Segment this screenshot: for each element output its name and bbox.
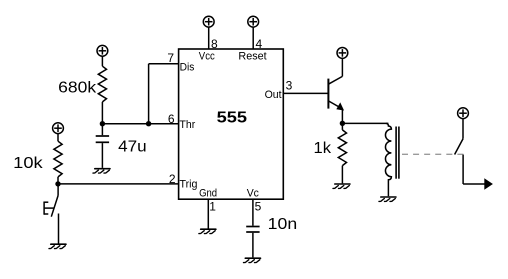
switch SW1 pushbutton bbox=[44, 184, 58, 244]
wire 680k bottom to node bbox=[101, 102, 103, 124]
svg-text:10n: 10n bbox=[268, 216, 298, 233]
svg-text:3: 3 bbox=[286, 79, 293, 93]
svg-text:Vcc: Vcc bbox=[199, 50, 215, 62]
power +V above pin 4 bbox=[248, 16, 259, 49]
svg-text:Dis: Dis bbox=[180, 62, 195, 74]
wire Thr node to pin 6 bbox=[102, 123, 178, 125]
relay core bars bbox=[396, 127, 399, 179]
transistor Q1 emitter arrow bbox=[337, 104, 343, 110]
power +V above resistor 680k bbox=[97, 45, 108, 66]
svg-text:47u: 47u bbox=[118, 138, 147, 155]
svg-text:680k: 680k bbox=[58, 80, 97, 97]
label 1k bbox=[314, 140, 333, 157]
node emitter/1k/relay junction bbox=[340, 121, 345, 126]
resistor 10k bbox=[54, 141, 62, 177]
pin 6 label Thr bbox=[180, 119, 196, 131]
pin 2 label Trig bbox=[180, 179, 198, 191]
svg-text:10k: 10k bbox=[13, 155, 44, 172]
svg-text:5: 5 bbox=[255, 199, 262, 213]
capacitor 47u bbox=[96, 124, 109, 168]
pin 3 number bbox=[286, 79, 293, 93]
ground below resistor 1k bbox=[333, 184, 350, 188]
svg-text:1: 1 bbox=[209, 199, 216, 213]
svg-text:555: 555 bbox=[217, 110, 248, 127]
pin 5 label Vc bbox=[247, 188, 260, 200]
power +V above transistor Q1 bbox=[337, 48, 348, 77]
svg-text:Thr: Thr bbox=[180, 119, 196, 131]
node 680k/47u junction bbox=[100, 121, 105, 126]
pin 2 number bbox=[169, 172, 176, 186]
label 47u bbox=[118, 138, 147, 155]
wire pin 3 Out to transistor base bbox=[283, 92, 328, 94]
ground below capacitor 47u bbox=[93, 169, 110, 173]
switch SW2 relay contact bbox=[455, 139, 485, 184]
wire node to pin 2 Trig bbox=[58, 183, 179, 185]
pin 7 number bbox=[167, 51, 174, 65]
capacitor 10n bbox=[246, 227, 259, 258]
svg-text:Vc: Vc bbox=[247, 188, 260, 200]
svg-text:Out: Out bbox=[265, 89, 282, 101]
pin 3 label Out bbox=[265, 89, 282, 101]
pin 4 number bbox=[256, 37, 263, 51]
IC U1 555 body bbox=[179, 49, 284, 199]
label 10n bbox=[268, 216, 298, 233]
IC 555 value label bbox=[217, 110, 248, 127]
power +V above pin 8 bbox=[203, 16, 214, 49]
ground below switch SW1 bbox=[49, 244, 66, 248]
wire emitter node to relay coil bbox=[342, 122, 388, 124]
svg-text:4: 4 bbox=[256, 37, 263, 51]
wire pin 5 to capacitor 10n bbox=[252, 199, 254, 226]
power +V above switch SW2 bbox=[458, 108, 469, 139]
label 10k bbox=[13, 155, 44, 172]
resistor 680k bbox=[98, 66, 106, 102]
node Dis branch junction bbox=[146, 121, 151, 126]
svg-text:7: 7 bbox=[167, 51, 174, 65]
svg-text:Trig: Trig bbox=[180, 179, 198, 191]
pin 5 number bbox=[255, 199, 262, 213]
label 680k bbox=[58, 80, 97, 97]
svg-text:Gnd: Gnd bbox=[199, 188, 217, 200]
pin 4 label Reset bbox=[238, 50, 266, 62]
ground below pin 1 bbox=[199, 229, 216, 233]
wire Dis to pin 7 bbox=[149, 63, 179, 65]
ground below relay coil bbox=[379, 197, 396, 201]
wire pin 1 to ground bbox=[207, 199, 209, 228]
node 10k/switch/Trig junction bbox=[55, 181, 60, 186]
pin 7 label Dis bbox=[180, 62, 195, 74]
ground below capacitor 10n bbox=[244, 258, 261, 262]
svg-text:Reset: Reset bbox=[238, 50, 266, 62]
power +V above resistor 10k bbox=[53, 123, 64, 141]
resistor 1k bbox=[338, 123, 346, 183]
svg-text:8: 8 bbox=[211, 37, 218, 51]
relay coil L1 bbox=[385, 123, 391, 196]
pin 1 number bbox=[209, 199, 216, 213]
pin 6 number bbox=[168, 112, 175, 126]
pin 8 label Vcc bbox=[199, 50, 215, 62]
pin 8 number bbox=[211, 37, 218, 51]
pin 1 label Gnd bbox=[199, 188, 217, 200]
wire Dis vertical bbox=[148, 64, 150, 124]
wire 10k bottom to node bbox=[57, 177, 59, 184]
mechanical link dashed bbox=[402, 153, 463, 155]
svg-text:1k: 1k bbox=[314, 140, 333, 157]
transistor Q1 NPN bbox=[328, 76, 342, 123]
output arrow bbox=[484, 178, 493, 189]
